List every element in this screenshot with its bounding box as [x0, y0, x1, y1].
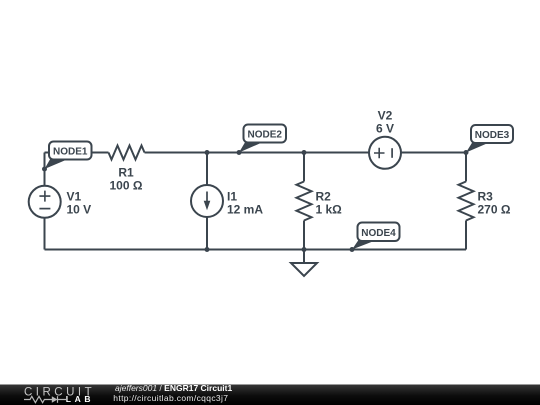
svg-text:NODE1: NODE1: [53, 147, 88, 158]
svg-text:NODE4: NODE4: [361, 228, 396, 239]
svg-text:270 Ω: 270 Ω: [478, 203, 511, 217]
svg-text:V2: V2: [378, 109, 393, 123]
svg-text:LAB: LAB: [66, 394, 94, 404]
svg-text:R1: R1: [118, 166, 134, 180]
svg-text:NODE3: NODE3: [475, 130, 510, 141]
svg-text:NODE2: NODE2: [247, 130, 282, 141]
svg-text:10 V: 10 V: [67, 203, 92, 217]
svg-text:R2: R2: [316, 190, 332, 204]
svg-text:R3: R3: [478, 190, 494, 204]
svg-text:1 kΩ: 1 kΩ: [316, 203, 343, 217]
svg-text:ajeffers001 / ENGR17 Circuit1: ajeffers001 / ENGR17 Circuit1: [115, 383, 232, 393]
svg-text:12 mA: 12 mA: [227, 203, 263, 217]
svg-text:V1: V1: [67, 190, 82, 204]
svg-text:100 Ω: 100 Ω: [110, 179, 143, 193]
svg-text:6 V: 6 V: [376, 122, 394, 136]
svg-text:I1: I1: [227, 190, 237, 204]
svg-text:http://circuitlab.com/cqqc3j7: http://circuitlab.com/cqqc3j7: [113, 393, 228, 403]
